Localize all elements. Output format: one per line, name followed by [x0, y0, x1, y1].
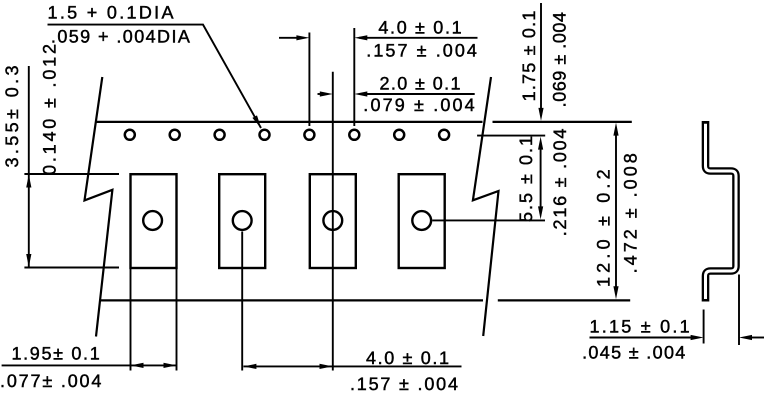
1.75 dim line — [540, 3, 542, 109]
svg-text:.077± .004: .077± .004 — [0, 371, 101, 391]
3.55 dim extension line top — [24, 173, 119, 175]
arrowhead leader at sprocket hole 4 — [252, 115, 261, 128]
1.95 extension line right — [176, 268, 178, 371]
pocket 2 — [219, 174, 265, 268]
2.0 dim line right — [359, 93, 475, 95]
svg-text:2.0 ± 0.1: 2.0 ± 0.1 — [380, 73, 461, 93]
extension line sprocket hole 5 — [308, 33, 310, 127]
svg-text:12.0 ± 0.2: 12.0 ± 0.2 — [593, 169, 613, 287]
svg-text:4.0 ± 0.1: 4.0 ± 0.1 — [378, 17, 461, 37]
svg-text:5.5 ± 0.1: 5.5 ± 0.1 — [516, 136, 536, 222]
arrowhead 3.55 down — [26, 254, 31, 267]
1.15 dim line left — [590, 337, 693, 339]
svg-text:0.140 ± .012: 0.140 ± .012 — [40, 44, 60, 175]
sprocket hole 8 — [439, 130, 449, 140]
arrowhead 12.0 up — [613, 123, 618, 136]
hole centerline extension right — [477, 135, 545, 137]
arrowhead 1.15 left-pointing — [739, 335, 752, 340]
arrowhead 3.55 up — [26, 175, 31, 188]
sprocket hole 1 — [125, 130, 135, 140]
svg-text:3.55± 0.3: 3.55± 0.3 — [2, 66, 22, 168]
pocket 1 hole — [143, 211, 162, 230]
sprocket hole 5 — [304, 130, 314, 140]
svg-text:.079 ± .004: .079 ± .004 — [363, 95, 474, 115]
svg-text:1.75 ± 0.1: 1.75 ± 0.1 — [519, 11, 539, 102]
right break line — [473, 77, 499, 336]
sprocket holes row — [125, 130, 449, 140]
sprocket hole 7 — [394, 130, 404, 140]
1.15 dim line right — [751, 337, 764, 339]
pocket 4 hole — [412, 211, 431, 230]
5.5 dim line — [540, 148, 542, 208]
arrowhead 2.0 left-pointing — [354, 91, 367, 96]
1.95 dim line — [2, 364, 177, 366]
pocket 2 centerline extension down — [241, 232, 243, 371]
arrowhead 1.75 down — [538, 108, 543, 121]
svg-text:1.5 + 0.1DIA: 1.5 + 0.1DIA — [48, 2, 174, 22]
arrowhead 1.95 right-pointing — [164, 363, 177, 368]
extension line pocket 3 centerline — [332, 72, 334, 371]
bottom 4.0 dim line — [243, 365, 461, 367]
tape cross-section profile outer — [706, 121, 737, 302]
1.15 extension line right — [738, 275, 740, 346]
sprocket hole 6 — [349, 130, 359, 140]
svg-text:.216 ± .004: .216 ± .004 — [550, 129, 570, 237]
top 4.0 dim line right — [359, 37, 478, 39]
tape cross-section profile inner white — [706, 124, 737, 299]
svg-text:1.95± 0.1: 1.95± 0.1 — [11, 343, 99, 363]
12.0 dim line — [615, 134, 617, 288]
tape top edge — [95, 121, 632, 123]
sprocket hole 4 — [260, 130, 270, 140]
top 4.0 dim line left stub — [279, 37, 297, 39]
arrowhead top 4.0 left-pointing — [354, 35, 367, 40]
svg-text:.059 + .004DIA: .059 + .004DIA — [51, 27, 190, 47]
pocket 3 hole — [323, 211, 342, 230]
pocket 4 — [399, 174, 445, 268]
sprocket hole 2 — [170, 130, 180, 140]
arrowhead 2.0 right-pointing — [320, 91, 333, 96]
sprocket hole 3 — [215, 130, 225, 140]
arrowhead 5.5 up — [538, 137, 543, 150]
extension line sprocket hole 6 — [353, 28, 355, 126]
3.55 dim extension line bottom — [24, 267, 119, 269]
arrowhead bottom 4.0 left-pointing — [243, 364, 256, 369]
leader line for sprocket hole diameter label — [48, 25, 262, 128]
pocket 4 centerline extension right — [432, 219, 545, 221]
svg-text:.157 ± .004: .157 ± .004 — [366, 40, 477, 60]
left break line — [85, 77, 113, 337]
svg-text:.045 ± .004: .045 ± .004 — [582, 343, 685, 363]
pocket 1 — [131, 174, 177, 268]
pocket 3 — [310, 174, 356, 268]
1.95 extension line left — [130, 268, 132, 371]
svg-text:4.0 ± 0.1: 4.0 ± 0.1 — [366, 348, 449, 368]
arrowhead 1.95 left-pointing — [131, 363, 144, 368]
arrowhead 5.5 down — [538, 206, 543, 219]
component pockets — [131, 174, 445, 268]
svg-text:1.15 ± 0.1: 1.15 ± 0.1 — [590, 317, 690, 337]
svg-text:.157 ± .004: .157 ± .004 — [350, 374, 458, 394]
3.55 dim line and label separator — [28, 66, 30, 267]
arrowhead bottom 4.0 right-pointing — [320, 364, 333, 369]
arrowhead top 4.0 right-pointing — [296, 35, 309, 40]
pocket 2 hole — [233, 211, 252, 230]
svg-text:.472 ± .008: .472 ± .008 — [620, 153, 640, 273]
tape bottom edge — [101, 299, 630, 301]
arrowhead 1.15 right-pointing — [691, 335, 704, 340]
arrowhead 12.0 down — [613, 286, 618, 299]
svg-text:.069 ± .004: .069 ± .004 — [550, 12, 570, 107]
1.15 extension line left — [703, 310, 705, 344]
2.0 dim line left stub — [318, 93, 322, 95]
